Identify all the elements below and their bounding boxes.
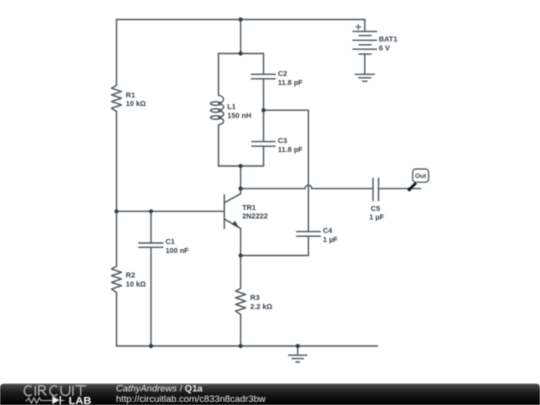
wire C4 branch lower: [241, 236, 309, 255]
ground battery: [355, 74, 374, 81]
resistor R1: [112, 85, 147, 111]
junction emitter: [239, 253, 243, 257]
svg-text:10 kΩ: 10 kΩ: [126, 99, 146, 108]
capacitor C3: [252, 136, 303, 154]
node Out flag: [408, 169, 429, 191]
wire base: [117, 210, 225, 212]
inductor L1: [211, 95, 252, 125]
wire tank left lower: [218, 125, 220, 166]
wire tank right upper: [263, 54, 265, 75]
wire tank top rail: [219, 53, 264, 55]
svg-text:2.2 kΩ: 2.2 kΩ: [250, 302, 272, 311]
wire tank right middle: [263, 79, 265, 142]
capacitor C1: [139, 237, 189, 255]
svg-text:150 nH: 150 nH: [227, 111, 251, 120]
capacitor C2: [251, 69, 303, 87]
junction base left: [114, 209, 118, 213]
svg-text:C1: C1: [166, 237, 175, 246]
svg-text:1 µF: 1 µF: [369, 213, 384, 222]
resistor R3: [236, 288, 273, 314]
wire left rail lower: [116, 112, 118, 267]
svg-text:6 V: 6 V: [379, 43, 390, 52]
wire C1 branch lower: [150, 247, 152, 346]
wire emitter upper: [240, 229, 242, 289]
svg-text:1 µF: 1 µF: [323, 235, 338, 244]
svg-text:R1: R1: [126, 91, 135, 100]
svg-text:C4: C4: [323, 226, 333, 235]
svg-text:11.8 pF: 11.8 pF: [278, 78, 303, 87]
wire bottom rail: [117, 345, 378, 347]
svg-text:100 nF: 100 nF: [166, 246, 190, 255]
transistor TR1: [224, 189, 267, 229]
svg-text:L1: L1: [227, 102, 236, 111]
svg-text:2N2222: 2N2222: [242, 212, 268, 221]
svg-text:LAB: LAB: [69, 396, 92, 405]
wire battery feed: [364, 20, 366, 32]
wire tank feed top: [240, 20, 242, 54]
svg-text:R2: R2: [126, 271, 135, 280]
svg-text:BAT1: BAT1: [379, 35, 398, 44]
junction collector: [239, 187, 243, 191]
junction base C1: [149, 209, 153, 213]
wire tank feed bottom: [240, 166, 242, 189]
svg-text:TR1: TR1: [242, 203, 256, 212]
wire C4 branch upper: [307, 110, 309, 231]
junction tank bottom: [239, 164, 243, 168]
wire collector node right: [312, 188, 373, 190]
resistor R2: [112, 266, 147, 292]
wire left rail bottom: [116, 292, 118, 346]
wire tap: [264, 109, 309, 111]
junction bottom ground: [296, 344, 300, 348]
svg-text:Out: Out: [415, 173, 427, 180]
wire left rail upper: [116, 20, 118, 86]
junction bottom C1: [149, 344, 153, 348]
ground bottom: [289, 346, 307, 362]
junction top rail tap: [239, 17, 243, 21]
battery BAT1: [353, 24, 397, 54]
svg-text:10 kΩ: 10 kΩ: [126, 279, 146, 288]
svg-text:R3: R3: [250, 293, 259, 302]
svg-text:11.8 pF: 11.8 pF: [278, 145, 303, 154]
junction bottom R3: [239, 344, 243, 348]
wire collector node left: [241, 188, 305, 190]
svg-text:http://circuitlab.com/c833n8ca: http://circuitlab.com/c833n8cadr3bw: [116, 393, 266, 404]
wire top rail: [117, 19, 365, 21]
wire battery to ground: [364, 54, 366, 74]
svg-text:C3: C3: [278, 136, 287, 145]
logo circuitlab: [24, 386, 91, 405]
wire emitter lower: [240, 314, 242, 346]
svg-text:C2: C2: [278, 69, 287, 78]
svg-text:C5: C5: [371, 204, 380, 213]
footer bar: [0, 384, 540, 405]
capacitor C5: [369, 178, 384, 221]
wire tank left upper: [218, 54, 220, 96]
wire tank right lower: [263, 146, 265, 166]
junction tank tap: [261, 108, 265, 112]
svg-text:CathyAndrews / Q1a: CathyAndrews / Q1a: [116, 382, 203, 393]
wire C1 branch upper: [150, 211, 152, 243]
wire hop: [305, 185, 312, 188]
capacitor C4: [297, 226, 339, 244]
wire tank bottom rail: [219, 165, 264, 167]
junction tank top: [239, 51, 243, 55]
wire C5 to out: [379, 188, 421, 190]
